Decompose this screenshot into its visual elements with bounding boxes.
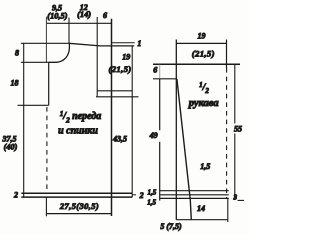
bottom dimension line	[46, 213, 111, 215]
tick at neck width 9,5 start	[45, 17, 47, 63]
55 bottom end tick	[238, 199, 245, 201]
cuff line 2	[160, 194, 229, 196]
placket end tick	[18, 104, 49, 106]
center front dashed fold line	[46, 107, 48, 192]
tick/extension at neck point	[68, 18, 70, 44]
sleeve: top dimension line	[176, 42, 226, 44]
cuff line 3	[160, 197, 229, 199]
svg-text:19: 19	[122, 53, 130, 62]
svg-text:3: 3	[233, 193, 238, 201]
front neckline curve	[49, 43, 70, 62]
svg-text:6: 6	[153, 66, 157, 75]
svg-text:2: 2	[13, 190, 18, 199]
svg-text:1,5: 1,5	[147, 198, 156, 206]
55 dimension line lower	[234, 134, 236, 200]
49 dimension line upper part	[159, 79, 161, 130]
left dimension column	[23, 43, 25, 197]
sleeve top edge	[153, 63, 240, 65]
svg-text:(21,5): (21,5)	[192, 48, 215, 58]
svg-text:27,5(30,5): 27,5(30,5)	[59, 201, 99, 211]
back neck line	[21, 42, 69, 44]
bottom dim extension left	[45, 197, 47, 216]
55 dimension line upper	[234, 64, 236, 123]
piece right edge (with top tick)	[111, 19, 113, 216]
armhole tick (21,5)	[96, 96, 139, 98]
svg-text:55: 55	[234, 125, 242, 134]
svg-text:5 (7,5): 5 (7,5)	[160, 222, 182, 231]
armhole tick 19	[97, 90, 132, 92]
shoulder slope line	[69, 43, 134, 46]
svg-text:1,5: 1,5	[200, 162, 210, 171]
hem line upper	[21, 192, 132, 194]
cuff fold 6 bottom tick	[153, 78, 177, 80]
svg-text:(21,5): (21,5)	[108, 64, 131, 74]
svg-text:1/2: 1/2	[199, 81, 209, 95]
sleeve right corner extension	[226, 40, 228, 69]
svg-text:2: 2	[139, 191, 144, 200]
cuff bottom dimension line	[176, 219, 228, 221]
svg-text:6: 6	[103, 11, 107, 20]
svg-text:и спинки: и спинки	[58, 125, 98, 136]
svg-text:43,5: 43,5	[112, 135, 127, 144]
front/back piece: top dimension line	[46, 22, 111, 24]
sleeve fold dashed line	[226, 68, 228, 198]
dim 1 top tick	[112, 42, 135, 44]
svg-text:(14): (14)	[77, 10, 91, 19]
thin 6 connector	[159, 64, 161, 79]
sleeve seam diagonal	[177, 79, 191, 220]
right dimension column of front piece	[131, 46, 133, 197]
placket right line	[48, 62, 50, 105]
svg-text:49: 49	[149, 131, 158, 140]
tick/extension at shoulder 12 end	[96, 17, 98, 97]
neck bottom tick	[21, 61, 49, 63]
cuff line 1	[160, 190, 229, 192]
svg-text:рукава: рукава	[188, 98, 219, 109]
svg-text:1,5: 1,5	[148, 189, 157, 197]
cuff right extension	[227, 198, 229, 222]
svg-text:1: 1	[137, 39, 141, 48]
svg-text:(40): (40)	[4, 142, 18, 151]
svg-text:19: 19	[198, 32, 206, 41]
hem line lower	[21, 196, 132, 198]
49 dimension line lower part	[159, 142, 161, 201]
svg-text:(10,5): (10,5)	[47, 11, 67, 20]
right column bottom tick	[132, 194, 136, 196]
svg-text:8: 8	[15, 48, 19, 57]
svg-text:18: 18	[11, 79, 19, 88]
svg-text:14: 14	[197, 204, 205, 213]
sleeve original straight edge / left extension	[175, 40, 177, 220]
svg-text:1/2 переда: 1/2 переда	[60, 110, 102, 125]
